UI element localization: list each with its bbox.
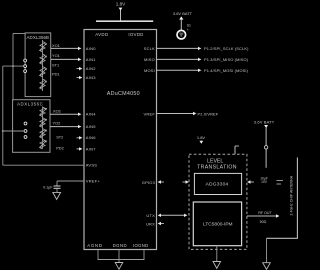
svg-text:P1.3/SPI_MISO (MISO): P1.3/SPI_MISO (MISO) bbox=[204, 57, 249, 62]
stub PD2 bbox=[77, 148, 80, 150]
svg-text:RF OUT: RF OUT bbox=[258, 211, 272, 215]
svg-text:ST1: ST1 bbox=[52, 63, 59, 68]
sensor2 output rows bbox=[53, 109, 64, 151]
svg-text:IOVDD: IOVDD bbox=[128, 32, 143, 37]
svg-text:AIN2: AIN2 bbox=[86, 66, 96, 71]
svg-text:AGND: AGND bbox=[87, 243, 102, 248]
IC U4 radio bbox=[193, 202, 241, 246]
svg-text:0.1µF: 0.1µF bbox=[43, 186, 53, 190]
battery B1 3.6V bbox=[173, 11, 193, 39]
svg-text:ADXL356B: ADXL356B bbox=[27, 35, 50, 40]
wire VREF out bbox=[157, 113, 194, 115]
svg-text:1.8V: 1.8V bbox=[197, 135, 206, 140]
svg-text:UTX: UTX bbox=[146, 213, 155, 218]
svg-text:10V: 10V bbox=[261, 180, 268, 184]
wire GPIO stub at MCU bbox=[158, 180, 161, 183]
sensor U1a box bbox=[25, 33, 51, 97]
svg-text:MISO: MISO bbox=[144, 57, 155, 62]
MCU right pin labels bbox=[142, 46, 156, 226]
svg-text:GPIO3: GPIO3 bbox=[142, 180, 156, 185]
svg-text:P1.2/SPI_SCLK (SCLK): P1.2/SPI_SCLK (SCLK) bbox=[204, 46, 249, 51]
capacitor C1 0.1uF bbox=[57, 180, 84, 182]
svg-text:P2.0/VREF: P2.0/VREF bbox=[198, 111, 219, 116]
wire bus A to MCU bbox=[3, 164, 84, 166]
sensor U1b box bbox=[13, 100, 50, 153]
svg-text:SCLK: SCLK bbox=[144, 46, 155, 51]
IC U3 level translator bbox=[194, 173, 241, 194]
svg-text:VREF: VREF bbox=[144, 111, 156, 116]
svg-text:AIN3: AIN3 bbox=[86, 75, 96, 80]
wire MOSI bbox=[157, 69, 199, 71]
wire sensor2 mid to bus A bbox=[3, 130, 24, 132]
svg-text:LTC5800-IPM: LTC5800-IPM bbox=[203, 221, 233, 227]
ground under C1 bbox=[53, 192, 61, 199]
svg-text:ST2: ST2 bbox=[56, 134, 63, 139]
svg-text:AIN4: AIN4 bbox=[86, 112, 96, 117]
svg-text:1.8V: 1.8V bbox=[116, 2, 126, 7]
power rail 1.8V bbox=[96, 20, 153, 22]
wire module ground bbox=[216, 246, 218, 262]
ground antenna bbox=[263, 263, 271, 270]
ground MCU bbox=[115, 263, 123, 270]
MCU left pin labels bbox=[86, 46, 101, 184]
wire Y2 bbox=[50, 126, 78, 128]
terminal circles sensor1 bbox=[24, 59, 27, 62]
wire module vdd stub bbox=[234, 146, 236, 154]
stub ST1 bbox=[77, 68, 80, 70]
svg-text:AIN7: AIN7 bbox=[86, 146, 96, 151]
svg-text:AIN1: AIN1 bbox=[86, 57, 96, 62]
stub ST2 bbox=[77, 137, 80, 139]
bus B vertical bbox=[12, 34, 14, 100]
wire RF out bbox=[247, 215, 276, 217]
svg-text:AIN0: AIN0 bbox=[86, 46, 96, 51]
wire X2 bbox=[50, 113, 78, 115]
svg-text:TRANSLATION: TRANSLATION bbox=[197, 165, 237, 171]
wire sensor1 mid to bus A bbox=[3, 65, 24, 67]
svg-text:DGND: DGND bbox=[113, 243, 127, 248]
wire X1 bbox=[51, 47, 78, 49]
svg-text:XO2: XO2 bbox=[53, 109, 61, 114]
svg-text:YO2: YO2 bbox=[53, 121, 61, 126]
antenna trace bbox=[296, 158, 298, 239]
svg-text:ADG3304: ADG3304 bbox=[206, 182, 229, 188]
small mark right bbox=[277, 180, 284, 182]
svg-text:PD1: PD1 bbox=[52, 72, 60, 77]
sensor elements R chain 1 bbox=[40, 40, 45, 91]
svg-text:YO1: YO1 bbox=[52, 53, 60, 58]
svg-text:VREF+: VREF+ bbox=[86, 179, 101, 184]
bus A vertical bbox=[2, 66, 4, 165]
terminal circles sensor2 bbox=[24, 122, 27, 125]
svg-text:AVSS: AVSS bbox=[86, 163, 97, 168]
sensor1 output rows bbox=[52, 43, 60, 77]
wire sensor1 top to bus B bbox=[13, 33, 25, 35]
svg-text:ADXL356C: ADXL356C bbox=[17, 102, 43, 107]
svg-text:+: + bbox=[187, 28, 189, 32]
wire MISO bbox=[157, 58, 199, 60]
svg-text:MOSI: MOSI bbox=[144, 68, 155, 73]
IC U2 microcontroller bbox=[84, 30, 157, 250]
svg-text:ADuCM4050: ADuCM4050 bbox=[107, 91, 140, 97]
svg-text:PD2: PD2 bbox=[56, 146, 64, 151]
radio module dashed box bbox=[189, 154, 247, 249]
svg-text:3.6V BATT: 3.6V BATT bbox=[173, 11, 193, 16]
wire Y1 bbox=[51, 58, 78, 60]
ground module bbox=[213, 262, 221, 269]
svg-text:P1.4/SPI_MOSI (MOSI): P1.4/SPI_MOSI (MOSI) bbox=[204, 68, 249, 73]
svg-text:URX: URX bbox=[146, 221, 155, 226]
svg-text:AIN5: AIN5 bbox=[86, 124, 96, 129]
svg-text:IOGND: IOGND bbox=[133, 243, 149, 248]
wire 1.8V drop bbox=[120, 10, 122, 22]
stub PD1 bbox=[77, 77, 80, 79]
wire URX stub bbox=[158, 222, 161, 225]
svg-text:2.4GHz CHIP ANTENNA: 2.4GHz CHIP ANTENNA bbox=[290, 175, 294, 215]
1.8V supply label bbox=[116, 2, 126, 11]
wire into module right bbox=[251, 181, 255, 183]
svg-text:50Ω: 50Ω bbox=[260, 220, 267, 224]
wire SCLK bbox=[157, 47, 199, 49]
svg-text:AIN6: AIN6 bbox=[86, 135, 96, 140]
ground bus under MCU bbox=[97, 250, 99, 260]
svg-text:XO1: XO1 bbox=[52, 43, 60, 48]
wire UART bbox=[158, 214, 161, 217]
wire GPIO stub at module bbox=[183, 181, 186, 183]
svg-text:AVDD: AVDD bbox=[95, 32, 108, 37]
sensor elements R chain 2 bbox=[40, 107, 45, 149]
svg-text:3.6V BATT: 3.6V BATT bbox=[254, 119, 275, 124]
